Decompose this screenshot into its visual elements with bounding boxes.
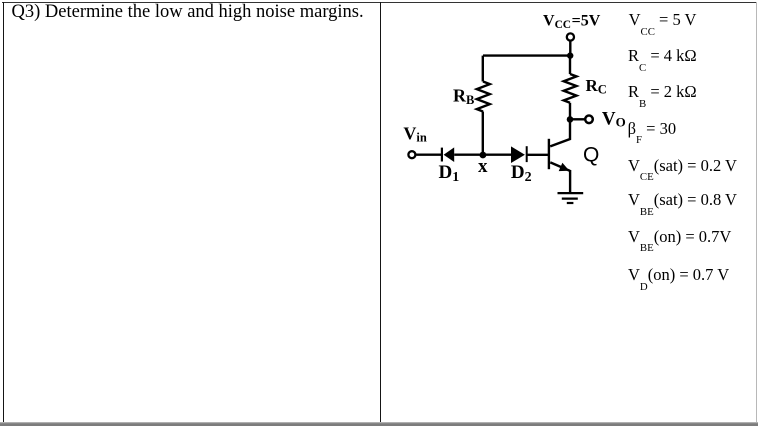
svg-text:x: x (478, 156, 488, 177)
svg-text:RC: RC (586, 76, 607, 96)
table right border (756, 2, 757, 423)
wire RC bottom vertical (569, 103, 571, 120)
table left border (3, 2, 4, 424)
wire Vcc stub (569, 41, 571, 55)
wire RB bottom vertical (482, 112, 484, 155)
table top border (2, 2, 757, 4)
label RB (453, 86, 474, 108)
diode D2 (511, 146, 527, 163)
svg-text:Q: Q (583, 144, 599, 167)
node junction Vo (567, 116, 574, 123)
wire RC top vertical (569, 56, 571, 74)
svg-text:Vin: Vin (403, 123, 426, 144)
power terminal Vcc (567, 33, 574, 40)
wire RB top vertical (482, 56, 484, 82)
svg-text:VO: VO (602, 109, 626, 130)
input terminal Vin (408, 151, 415, 158)
table column divider (380, 2, 382, 424)
wire top horizontal rail (483, 54, 570, 56)
svg-text:D2: D2 (511, 162, 532, 185)
label Vin (403, 123, 426, 144)
parameter line beta (628, 121, 676, 138)
label Vo (602, 109, 626, 130)
wire Vo stub (570, 118, 585, 120)
parameter line Rc (628, 48, 697, 65)
ground (558, 193, 584, 203)
svg-text:RB: RB (453, 86, 474, 108)
node X (480, 152, 487, 159)
transistor Q (549, 119, 570, 171)
resistor RC (564, 74, 577, 103)
node junction at Vcc rail (567, 52, 573, 58)
parameter line Vce(sat) (628, 158, 737, 175)
parameter line Vd(on) (628, 267, 729, 284)
wire D1 to D2 through node x (454, 153, 511, 155)
output terminal Vo (585, 116, 593, 124)
label D1 (439, 162, 460, 185)
parameter line Vbe(sat) (628, 192, 737, 209)
label D2 (511, 162, 532, 185)
window bottom gray strip (0, 422, 758, 426)
label Vcc=5V (543, 13, 601, 31)
svg-text:D1: D1 (439, 162, 460, 185)
parameter line Rb (628, 84, 697, 101)
label Q (583, 144, 599, 167)
parameter line Vbe(on) (628, 229, 731, 246)
label x (478, 156, 488, 177)
svg-text:VCC=5V: VCC=5V (543, 13, 601, 31)
resistor RB (477, 82, 490, 112)
label RC (586, 76, 607, 96)
parameter line Vcc (629, 12, 697, 29)
wire input to D1 (416, 153, 442, 155)
wire emitter vertical (569, 170, 571, 193)
wire D2 to base (527, 154, 549, 156)
diode D1 (442, 147, 454, 162)
question text Q3 (12, 3, 364, 22)
